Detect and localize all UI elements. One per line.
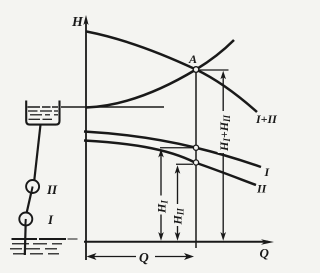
curve I (84, 132, 261, 168)
dimension H_I (158, 149, 164, 241)
svg-text:Q: Q (260, 246, 270, 261)
curve I+II (combined) (87, 32, 258, 113)
pump II outlet stub (31, 187, 32, 194)
label H_I+H_II (rotated) (217, 111, 232, 153)
axis Q arrowhead (261, 239, 274, 244)
pump I outlet stub (24, 219, 27, 226)
pump I (19, 213, 32, 226)
svg-text:Q: Q (139, 250, 149, 265)
label H_I (rotated) (155, 196, 170, 215)
axis H (vertical) (85, 20, 87, 260)
reference line top of H_I (160, 147, 193, 149)
curve II (84, 141, 256, 186)
tank water surface (28, 106, 59, 108)
pipe pump I to sump (25, 219, 26, 255)
svg-text:A: A (188, 52, 197, 66)
pump II (26, 180, 39, 193)
reference line right of A (197, 69, 229, 71)
node A circle (193, 67, 199, 73)
sump hatching (10, 244, 62, 254)
sump water surface (12, 238, 67, 240)
tank (26, 101, 59, 125)
system curve (rising through A) (86, 40, 234, 108)
svg-text:I+II: I+II (255, 112, 278, 126)
svg-text:I: I (47, 212, 54, 227)
svg-text:II: II (46, 182, 58, 197)
tank water hatching (28, 111, 58, 119)
reference line top of H_II (176, 163, 193, 165)
pipe tank to pump II (34, 125, 40, 181)
node on curve I (193, 145, 198, 150)
pipe pump II to pump I (27, 187, 33, 214)
sump surface thin extension (68, 238, 78, 240)
svg-text:II: II (256, 182, 268, 196)
static head line from tank (61, 106, 164, 108)
dimension Q (below axis) (87, 253, 195, 260)
dimension H_II (175, 165, 181, 240)
vertical line through A down to axis (195, 71, 197, 248)
dimension H_I+H_II (220, 71, 226, 241)
label H_II (rotated) (171, 204, 186, 226)
axis Q (horizontal) (84, 241, 268, 243)
node on curve II (193, 160, 198, 165)
axis H arrowhead (83, 15, 88, 25)
svg-text:H: H (71, 15, 84, 30)
